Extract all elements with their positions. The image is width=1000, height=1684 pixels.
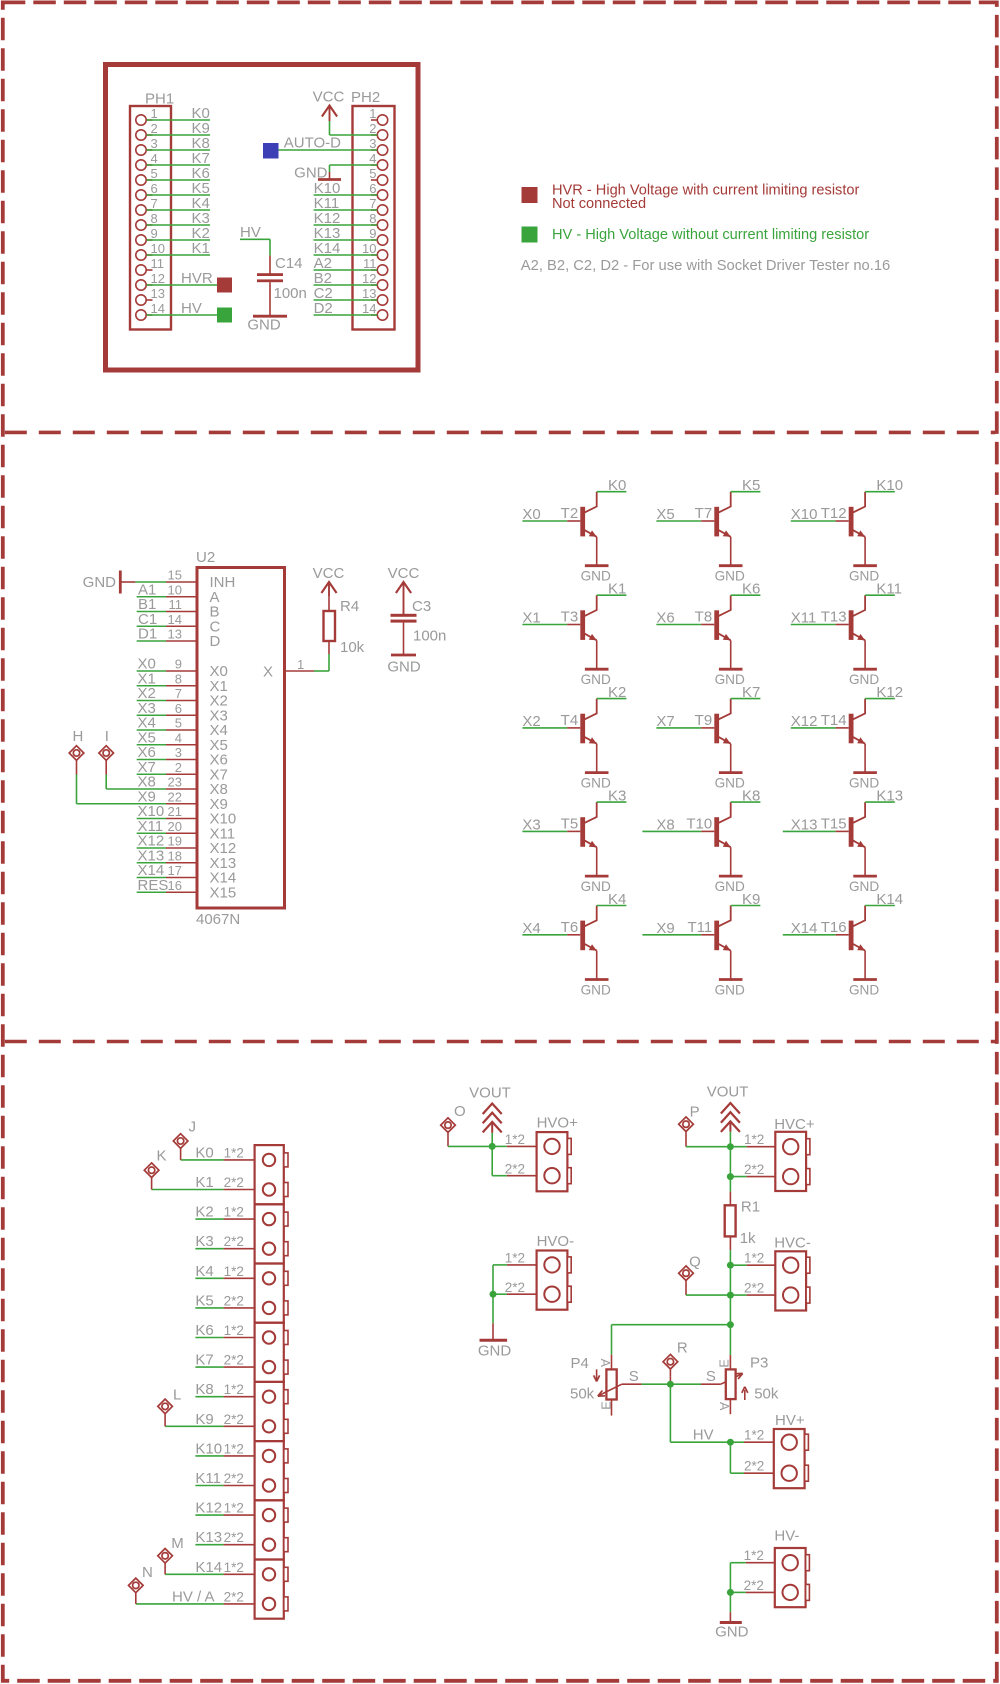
svg-text:10: 10 [362,241,376,256]
svg-text:14: 14 [362,301,376,316]
pin stub K7 [224,1366,255,1368]
svg-text:2*2: 2*2 [224,1293,244,1308]
svg-text:17: 17 [168,863,182,878]
svg-text:T3: T3 [561,609,579,626]
svg-text:12: 12 [151,271,165,286]
wire PH1 pin 12 [147,284,218,286]
svg-text:2*2: 2*2 [224,1412,244,1427]
wire B1 [137,611,166,613]
wire HVC- down to P3 [729,1295,731,1355]
node K4 [195,1263,213,1280]
testpoint H [69,728,84,775]
svg-text:T6: T6 [561,919,579,936]
junction VOUT/HVO+ [489,1143,496,1150]
svg-text:T5: T5 [561,815,579,832]
label 1*2 (HVC-) [744,1251,764,1266]
wire K4 [195,1277,223,1279]
svg-text:4: 4 [369,151,376,166]
svg-text:2*2: 2*2 [224,1589,244,1604]
svg-text:2*2: 2*2 [224,1471,244,1486]
wire GND to INH [135,581,166,583]
svg-text:K10: K10 [195,1440,222,1457]
svg-text:K12: K12 [876,684,903,701]
svg-text:K1: K1 [608,581,626,598]
transistor T6 [561,906,597,980]
svg-text:HV: HV [693,1427,714,1444]
node X11 [138,818,164,835]
svg-text:GND: GND [849,569,879,584]
svg-text:GND: GND [387,659,421,676]
wire X9 base [642,934,701,936]
node X3 [138,700,156,717]
ground (HVO-) [478,1340,512,1359]
label 2*2 (HVO+) [505,1161,525,1176]
testpoint R [663,1340,688,1377]
wire X7 base [656,727,701,729]
pin stub K6 [224,1337,255,1339]
svg-text:9: 9 [369,226,376,241]
label 2*2 [224,1412,244,1427]
transistor T4 [561,699,597,773]
svg-text:T4: T4 [561,712,579,729]
ground (T7 emitter) [715,566,745,584]
svg-text:S: S [629,1368,639,1385]
pin stub K11 [224,1485,255,1487]
wire PH2 pin 13 [314,299,378,301]
svg-text:HV - High Voltage without curr: HV - High Voltage without current limiti… [552,227,869,243]
node K8 [195,1381,213,1398]
svg-text:5: 5 [369,166,376,181]
wire PH1 pin 2 [147,134,211,136]
svg-text:22: 22 [168,789,182,804]
svg-text:VCC: VCC [313,565,345,582]
label 2*2 [224,1353,244,1368]
wire HVO+ pin 1 [492,1145,536,1147]
svg-text:11: 11 [363,256,377,271]
transistor T11 [687,906,730,980]
wire O to junction [448,1139,492,1146]
wire HV+ pin 1 [730,1441,773,1443]
legend HVR text [552,183,860,213]
wire K5 collector [731,491,761,493]
svg-text:13: 13 [151,286,165,301]
ground (T8 emitter) [715,669,745,687]
pin stub K2 [224,1218,255,1220]
label 1*2 [224,1501,244,1516]
svg-text:K9: K9 [195,1411,213,1428]
svg-text:13: 13 [168,627,182,642]
svg-text:GND: GND [581,569,611,584]
node K10 [314,180,341,197]
node X2 (base of T4) [522,713,540,730]
svg-text:HV+: HV+ [775,1412,805,1429]
svg-text:Q: Q [689,1254,701,1271]
svg-text:R: R [677,1340,688,1357]
ground (U2 INH) [83,571,136,594]
wire K5 [195,1307,223,1309]
junction wiper branch [727,1321,734,1328]
wire X5 base [656,520,701,522]
svg-text:K5: K5 [742,477,760,494]
wire X0 base [522,520,567,522]
wire K7 [195,1366,223,1368]
label 1*2 (HVO-) [505,1251,525,1266]
node K6 [742,581,760,598]
ground (PH2 pin 4) [294,165,341,182]
svg-text:50k: 50k [754,1386,779,1403]
svg-text:1*2: 1*2 [744,1132,764,1147]
svg-text:2: 2 [151,121,158,136]
wire PH2 pin 8 [314,224,378,226]
wire HV+ pin1 to pin2 [730,1442,773,1473]
svg-text:N: N [142,1564,153,1581]
svg-text:6: 6 [369,181,376,196]
svg-text:11: 11 [151,256,165,271]
label 2*2 [224,1293,244,1308]
svg-text:H: H [73,728,84,745]
svg-text:GND: GND [581,775,611,790]
svg-text:18: 18 [168,848,182,863]
svg-text:J: J [189,1119,197,1136]
node K7 [192,150,210,167]
wire X7 [137,773,166,775]
node K13 [195,1529,222,1546]
svg-text:GND: GND [849,879,879,894]
node K4 [608,891,626,908]
wire K9 [165,1425,224,1427]
svg-text:K7: K7 [195,1352,213,1369]
power VOUT (left) [469,1085,511,1133]
label 1*2 [224,1382,244,1397]
svg-text:2*2: 2*2 [744,1459,764,1474]
ground (T3 emitter) [581,669,611,687]
svg-text:1*2: 1*2 [224,1441,244,1456]
junction HV+ pin 1 [727,1439,734,1446]
wire X3 base [522,830,567,832]
pin stub K1 [224,1189,255,1191]
svg-text:1k: 1k [740,1230,756,1247]
connector HVC- [774,1235,811,1311]
node K14 [876,891,903,908]
node K2 [608,684,626,701]
svg-text:3: 3 [151,136,158,151]
svg-text:19: 19 [168,834,182,849]
svg-text:11: 11 [169,597,183,612]
node X0 (base of T2) [522,506,540,523]
transistor T14 [821,699,865,773]
wire A1 [137,596,166,598]
label 2*2 [224,1471,244,1486]
node X14 (base of T16) [791,920,818,937]
svg-text:GND: GND [715,672,745,687]
svg-text:2*2: 2*2 [224,1530,244,1545]
svg-text:M: M [171,1535,184,1552]
power VCC (R4) [313,565,345,596]
wire K2 [195,1218,223,1220]
pin stub K9 [224,1425,255,1427]
svg-text:100n: 100n [274,285,307,302]
node K10 [876,477,903,494]
svg-text:23: 23 [168,775,182,790]
wire X0 [137,670,166,672]
node K4 [192,195,210,212]
svg-text:GND: GND [581,982,611,997]
svg-text:T7: T7 [695,505,713,522]
svg-text:K10: K10 [876,477,903,494]
svg-text:K14: K14 [195,1559,222,1576]
wire K13 [195,1544,223,1546]
svg-text:10: 10 [151,241,165,256]
svg-text:10: 10 [168,582,182,597]
svg-text:1*2: 1*2 [224,1264,244,1279]
node K9 [742,891,760,908]
node HV (C14 top) [240,224,261,241]
node K5 [742,477,760,494]
svg-text:9: 9 [151,226,158,241]
svg-text:K3: K3 [195,1233,213,1250]
pin stub K10 [224,1455,255,1457]
pin stub K12 [224,1514,255,1516]
svg-text:RES: RES [138,877,169,894]
svg-text:2: 2 [175,760,182,775]
wire X10 base [791,520,836,522]
svg-text:K8: K8 [742,787,760,804]
capacitor C3 [391,598,447,655]
label 1*2 (HV-) [744,1548,764,1563]
wire HVC+ pin 2 [730,1176,775,1178]
wire K14 [165,1573,224,1575]
svg-text:HV: HV [240,224,261,241]
wire H to X9 [77,775,167,804]
node K13 [314,225,341,242]
node K9 [192,120,210,137]
junction HVC- pin 1 [727,1262,734,1269]
label 1*2 [224,1323,244,1338]
wire X3 [137,714,166,716]
wire X1 [137,685,166,687]
junction wiper S [667,1381,674,1388]
svg-text:GND: GND [849,775,879,790]
pin stub K5 [224,1307,255,1309]
svg-text:VCC: VCC [313,89,345,106]
svg-text:2*2: 2*2 [224,1234,244,1249]
wire PH1 pin 5 [147,179,211,181]
junction HVO- pin 2 [490,1291,497,1298]
svg-text:1*2: 1*2 [224,1323,244,1338]
node K3 [195,1233,213,1250]
wire HV- pin 1 [730,1563,774,1593]
svg-text:K: K [157,1148,167,1165]
wire PH2 pin 10 [314,254,378,256]
junction HVC- pin 2 [727,1292,734,1299]
svg-text:2: 2 [369,121,376,136]
svg-text:A: A [598,1359,612,1368]
svg-text:5: 5 [151,166,158,181]
svg-text:HVO-: HVO- [537,1233,575,1250]
wire K10 collector [865,491,895,493]
svg-text:K5: K5 [195,1292,213,1309]
testpoint J [173,1119,196,1160]
node K5 [192,180,210,197]
wire X13 [137,862,166,864]
wire X12 [137,847,166,849]
svg-text:GND: GND [715,775,745,790]
wire X14 base [783,934,836,936]
node K14 [195,1559,222,1576]
svg-text:T12: T12 [821,505,847,522]
node X5 (base of T7) [656,506,674,523]
svg-text:K7: K7 [742,684,760,701]
node X3 (base of T5) [522,816,540,833]
wire HVC- pin 2 [730,1294,775,1296]
wire P3 wiper [670,1383,701,1385]
svg-text:GND: GND [715,879,745,894]
wire P to junction [686,1139,730,1147]
wire HVC+ pin1 to pin2 [729,1147,731,1177]
svg-text:HV: HV [181,300,202,317]
transistor T12 [821,492,865,566]
svg-text:T13: T13 [821,609,847,626]
testpoint K [144,1148,166,1190]
ground (T16 emitter) [849,980,879,998]
wire Q to junction [686,1288,730,1296]
node K9 [195,1411,213,1428]
testpoint N [129,1564,153,1604]
svg-text:VOUT: VOUT [707,1084,749,1101]
svg-text:R1: R1 [741,1199,760,1216]
node K5 [195,1292,213,1309]
ground (T12 emitter) [849,566,879,584]
testpoint P [679,1104,700,1140]
resistor R1 [725,1192,760,1251]
svg-text:1*2: 1*2 [744,1428,764,1443]
transistor T13 [821,595,865,669]
label 1*2 (HVC+) [744,1132,764,1147]
testpoint Q [679,1254,701,1288]
node K12 [876,684,903,701]
node K1 [192,240,210,257]
pin stub K8 [224,1396,255,1398]
svg-text:4067N: 4067N [196,911,240,928]
node AUTO-D [284,135,341,152]
svg-text:1*2: 1*2 [744,1251,764,1266]
transistor T3 [561,595,597,669]
wire VOUT down (right) [729,1132,731,1147]
svg-text:T14: T14 [821,712,847,729]
svg-text:I: I [105,728,109,745]
wire K14 collector [865,905,895,907]
svg-text:HV / A: HV / A [172,1588,215,1605]
svg-text:A: A [717,1402,731,1411]
svg-text:R4: R4 [340,598,359,615]
wire S to HV [670,1384,730,1442]
node D2 [314,300,333,317]
svg-text:K2: K2 [608,684,626,701]
wire X2 base [522,727,567,729]
node K11 [195,1470,221,1487]
svg-text:K13: K13 [195,1529,222,1546]
ground (T2 emitter) [581,566,611,584]
label 2*2 [224,1234,244,1249]
wire VCC to PH2 pin 2 [330,121,378,135]
HV pad (green square) [217,308,232,323]
wire K6 collector [731,594,761,596]
svg-text:7: 7 [151,196,158,211]
wire PH2 pin 6 [314,194,378,196]
label 2*2 (HV+) [744,1459,764,1474]
svg-text:K4: K4 [608,891,626,908]
wire K12 [195,1514,223,1516]
svg-text:K6: K6 [195,1322,213,1339]
wire X6 base [656,624,701,626]
ground (T11 emitter) [715,980,745,998]
svg-text:K12: K12 [195,1500,222,1517]
svg-text:1: 1 [151,106,158,121]
svg-text:A2, B2, C2, D2 - For use with: A2, B2, C2, D2 - For use with Socket Dri… [521,258,890,274]
svg-text:2*2: 2*2 [744,1578,764,1593]
label 2*2 [224,1175,244,1190]
svg-text:GND: GND [247,317,281,334]
node K13 [876,787,903,804]
wire PH1 pin 14 [147,314,218,316]
svg-text:VOUT: VOUT [469,1085,511,1102]
node K7 [195,1352,213,1369]
wire PH1 pin 7 [147,209,211,211]
ground (T4 emitter) [581,773,611,791]
node A1 [138,581,156,598]
node K2 [195,1204,213,1221]
transistor T7 [695,492,731,566]
svg-text:GND: GND [581,672,611,687]
AUTO-D pad (blue square) [263,143,279,159]
label 1*2 [224,1264,244,1279]
node RES [138,877,169,894]
svg-text:2*2: 2*2 [744,1281,764,1296]
svg-text:U2: U2 [196,549,215,566]
wire K0 collector [597,491,627,493]
node A2 [314,255,332,272]
svg-text:20: 20 [168,819,182,834]
node K0 [192,105,210,122]
svg-text:5: 5 [175,716,182,731]
svg-text:T16: T16 [821,919,847,936]
wire K2 collector [597,698,627,700]
node K7 [742,684,760,701]
node K10 [195,1440,222,1457]
wire HVC+ pin 1 [730,1146,775,1148]
svg-text:K2: K2 [195,1204,213,1221]
svg-text:HVR: HVR [181,270,213,287]
svg-text:T9: T9 [695,712,713,729]
power VOUT (right) [707,1084,749,1132]
wire K12 collector [865,698,895,700]
legend HV square [522,227,538,243]
legend HVR square [522,187,538,203]
svg-text:C14: C14 [275,255,303,272]
wire HVO+ pin 2 [492,1146,536,1175]
svg-text:15: 15 [168,568,182,583]
svg-text:T10: T10 [686,815,712,832]
wire X14 [137,877,166,879]
wire X4 base [522,934,567,936]
label 2*2 (HVC-) [744,1281,764,1296]
wire X11 base [791,624,836,626]
wire K13 collector [865,801,895,803]
svg-text:50k: 50k [570,1386,595,1403]
wire PH1 pin 10 [147,254,211,256]
svg-text:P3: P3 [750,1355,768,1372]
node X6 (base of T8) [656,610,674,627]
